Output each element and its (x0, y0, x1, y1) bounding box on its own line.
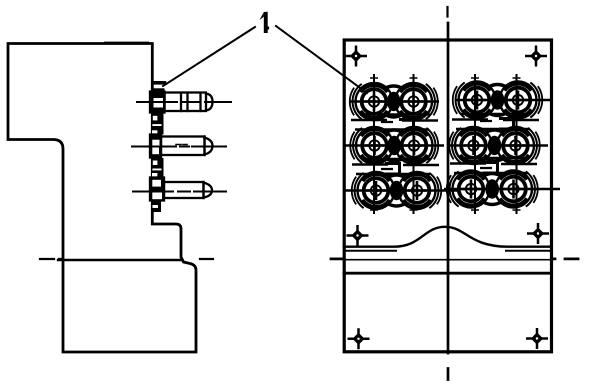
receptacle row2 left-A (350, 127, 393, 164)
item number 1 label (260, 12, 270, 33)
knot row3 right (483, 174, 501, 205)
left side view outline (8, 44, 196, 353)
row horizontal centerlines (344, 100, 560, 191)
right view: horizontal centerline (dash-dot) (344, 259, 551, 261)
connector 1 (side view, top) (150, 92, 213, 113)
knot row1 right (489, 85, 507, 116)
scan smear bars right gap2 (450, 158, 537, 173)
left view horizontal centerline (dash-dot) (40, 258, 213, 260)
tooling mark bottom-left (348, 328, 370, 349)
tooling mark top-left (345, 46, 367, 67)
receptacle row3 right-B (495, 171, 538, 208)
receptacle row3 right-A (447, 171, 490, 208)
receptacle row2 right-A (449, 127, 492, 164)
scan smear bars left gap1 (351, 115, 438, 130)
tooling mark middle-left (347, 225, 369, 246)
knot row3 left (388, 175, 406, 206)
corner target marks (345, 46, 549, 350)
tooling mark bottom-right (526, 328, 548, 349)
tooling mark top-right (525, 46, 547, 67)
knot row1 left (385, 86, 403, 117)
left view: connector mounting strip (dark serrated band) (152, 81, 167, 212)
left view: top edge of lower block (solid seam on centerline) (58, 259, 181, 261)
scan smear bars right gap1 (452, 114, 539, 129)
receptacle row1 left-A (350, 83, 393, 120)
receptacle row1 right-A (453, 82, 496, 119)
connector 2 centerline (132, 146, 226, 148)
receptacle row2 right-B (497, 127, 540, 164)
right view: vertical centerline (dash-dot) (446, 7, 448, 17)
scan smear bars left gap2 (352, 159, 439, 174)
receptacle row1 right-B (500, 82, 543, 119)
right view: wavy seam (bell curve) (344, 227, 551, 247)
leader line left (163, 27, 255, 86)
knot row2 left (385, 130, 403, 161)
receptacle row2 left-B (396, 127, 439, 164)
connector 2 small dashes inside (176, 144, 187, 146)
right view: panel outline (344, 40, 551, 352)
connector 3 (side view, bottom) (150, 178, 212, 201)
receptacle row3 left-A (352, 172, 395, 209)
leader line right (276, 26, 367, 93)
tooling mark middle-right (527, 223, 549, 244)
right view: lower seam line (344, 272, 551, 275)
top edge scan blotch (105, 42, 148, 44)
receptacle row3 left-B (399, 172, 442, 209)
connector grid: column verticals (370, 74, 521, 214)
connector 3 centerline (dashed) (133, 191, 226, 193)
inter-row bayonet brackets (381, 119, 514, 175)
connector 1 centerline (137, 101, 231, 103)
knot row2 right (486, 130, 504, 161)
receptacle row1 left-B (395, 83, 438, 120)
connector 2 (side view, middle) (150, 135, 213, 158)
